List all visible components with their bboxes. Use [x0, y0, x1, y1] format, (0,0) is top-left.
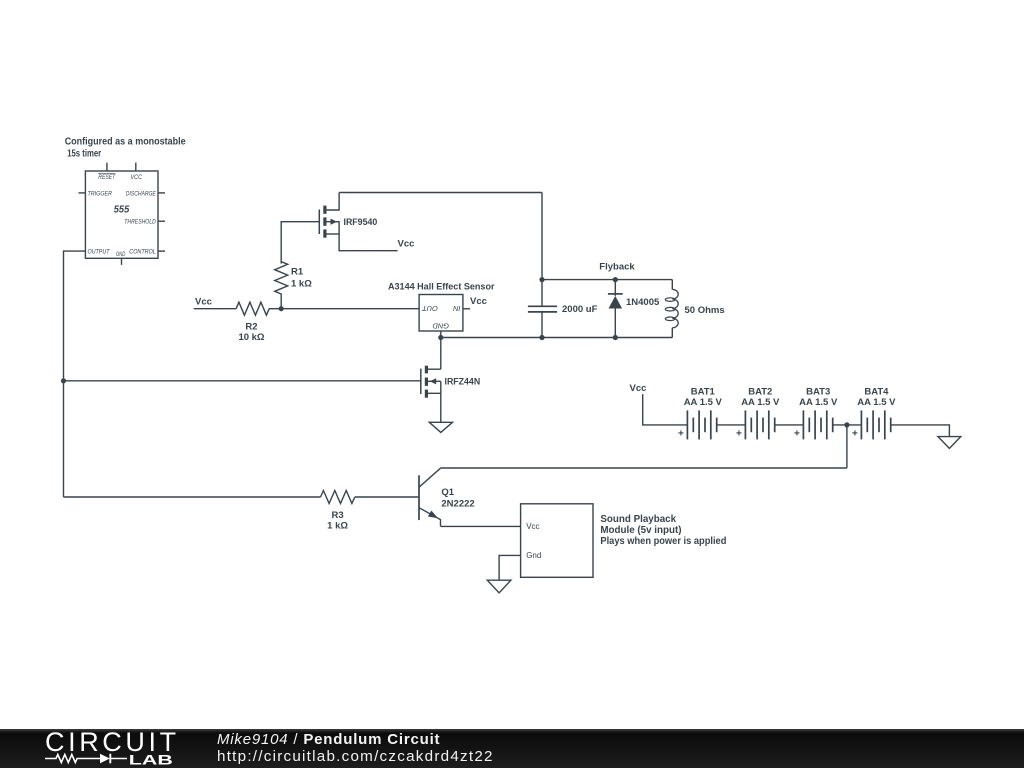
resistor R1 [275, 262, 288, 309]
wire right vertical rail upper [541, 193, 543, 307]
svg-text:OUTPUT: OUTPUT [88, 249, 111, 256]
pin GND stub [121, 258, 123, 265]
transistor Q3 IRFZ44N nmos [421, 366, 441, 423]
footer url [217, 748, 494, 765]
ground symbol below IRFZ44N [429, 422, 452, 432]
svg-text:GND: GND [432, 321, 449, 330]
ground symbol below sound module [487, 580, 511, 593]
svg-text:+: + [852, 429, 858, 440]
svg-text:Q1: Q1 [441, 487, 454, 498]
wire R2 to hall sensor OUT [269, 308, 419, 310]
circuitlab logo [40, 729, 180, 768]
svg-text:Sound Playback: Sound Playback [600, 514, 676, 525]
svg-text:R3: R3 [332, 510, 344, 521]
svg-text:Vcc: Vcc [630, 383, 647, 394]
node junction diode top [613, 277, 618, 282]
svg-text:Flyback: Flyback [599, 261, 635, 272]
svg-text:IRFZ44N: IRFZ44N [445, 377, 481, 387]
svg-text:Gnd: Gnd [526, 551, 541, 560]
svg-text:VCC: VCC [131, 174, 143, 181]
pin RESET stub [106, 163, 108, 171]
node junction hall gnd [438, 335, 443, 340]
pin VCC stub [135, 163, 137, 171]
svg-text:2000 uF: 2000 uF [562, 304, 598, 315]
node junction cap bottom [539, 335, 544, 340]
resistor R2 [236, 302, 269, 315]
svg-text:1N4005: 1N4005 [626, 297, 660, 308]
svg-text:TRIGGER: TRIGGER [88, 190, 113, 197]
wire Q1 emitter to sound module Vcc [441, 525, 521, 527]
hall sensor U2 A3144 box [419, 295, 463, 332]
svg-text:GND: GND [116, 251, 126, 258]
resistor R3 [321, 491, 355, 504]
svg-text:RESET: RESET [98, 174, 116, 181]
wire sound module Gnd [499, 555, 520, 580]
wire battery Vcc stub [643, 394, 688, 425]
battery BAT3 [803, 410, 861, 439]
svg-text:1 kΩ: 1 kΩ [327, 521, 348, 532]
svg-text:1 kΩ: 1 kΩ [291, 278, 312, 289]
wire gate rail to IRFZ44N [64, 380, 421, 382]
svg-text:Vcc: Vcc [470, 296, 487, 307]
svg-text:CONTROL: CONTROL [129, 249, 156, 256]
svg-text:Vcc: Vcc [195, 296, 212, 307]
svg-text:Plays when power is applied: Plays when power is applied [600, 536, 726, 547]
svg-text:Module (5v input): Module (5v input) [600, 525, 681, 536]
svg-text:R2: R2 [245, 322, 257, 333]
wire 555 OUTPUT to left rail down [64, 251, 86, 497]
node junction battery tap [844, 422, 849, 427]
ground symbol right of BAT4 [938, 437, 961, 449]
wire Vcc to R2 [194, 308, 236, 310]
svg-text:AA 1.5 V: AA 1.5 V [799, 397, 838, 408]
pin THRESHOLD stub [158, 220, 165, 222]
sound module box [521, 504, 593, 578]
svg-text:Vcc: Vcc [398, 238, 415, 249]
wire battery tap down to collector rail [846, 425, 848, 468]
svg-text:Configured as a monostable: Configured as a monostable [65, 137, 187, 148]
pin DISCHARGE stub [158, 192, 165, 194]
svg-text:A3144 Hall Effect Sensor: A3144 Hall Effect Sensor [388, 281, 495, 292]
capacitor C1 2000uF [528, 305, 557, 307]
wire flyback bottom rail [441, 337, 673, 339]
svg-text:BAT2: BAT2 [748, 386, 772, 397]
wire flyback top rail [542, 279, 672, 281]
node junction cap top [539, 277, 544, 282]
svg-text:50 Ohms: 50 Ohms [685, 305, 725, 316]
svg-text:LAB: LAB [129, 751, 173, 767]
wire right vertical rail lower [541, 312, 543, 338]
transistor Q1 2N2222 [419, 468, 441, 526]
svg-text:BAT1: BAT1 [691, 386, 716, 397]
svg-text:AA 1.5 V: AA 1.5 V [684, 397, 723, 408]
battery BAT1 [687, 410, 745, 439]
svg-text:BAT4: BAT4 [864, 386, 889, 397]
svg-text:+: + [794, 429, 800, 440]
svg-text:DISCHARGE: DISCHARGE [126, 190, 157, 197]
node junction diode bottom [613, 335, 618, 340]
svg-text:THRESHOLD: THRESHOLD [124, 219, 156, 226]
footer title [217, 731, 440, 748]
svg-text:AA 1.5 V: AA 1.5 V [857, 397, 896, 408]
svg-text:IRF9540: IRF9540 [344, 217, 378, 227]
wire hall GND down [440, 331, 442, 369]
svg-text:OUT: OUT [422, 304, 438, 313]
battery BAT4 [861, 410, 890, 439]
wire BAT4 to ground [891, 425, 950, 437]
pin IN stub [463, 308, 470, 310]
svg-text:15s timer: 15s timer [67, 149, 101, 160]
svg-text:AA 1.5 V: AA 1.5 V [741, 397, 780, 408]
svg-text:555: 555 [114, 204, 130, 215]
svg-text:Vcc: Vcc [526, 522, 539, 531]
svg-text:BAT3: BAT3 [806, 386, 830, 397]
wire bottom rail to R3 [64, 496, 321, 498]
svg-text:2N2222: 2N2222 [441, 498, 474, 509]
pin CONTROL stub [158, 250, 165, 252]
svg-text:+: + [736, 429, 742, 440]
pin TRIGGER stub [79, 192, 86, 194]
op-amp U1 555 timer box [85, 171, 158, 258]
transistor Q2 IRF9540 pmos [319, 193, 397, 251]
diode D1 1N4005 [608, 280, 623, 338]
svg-text:10 kΩ: 10 kΩ [238, 332, 264, 343]
footer bar [0, 729, 1024, 768]
wire IRF9540 drain top rail [339, 192, 542, 194]
svg-text:+: + [678, 429, 684, 440]
svg-text:R1: R1 [291, 266, 304, 277]
node junction left rail [61, 378, 66, 383]
node junction R1/R2 [279, 306, 284, 311]
wire R1 to IRF9540 gate [281, 222, 319, 264]
wire Q1 collector rail [441, 467, 847, 469]
battery BAT2 [745, 410, 803, 439]
wire R3 to Q1 base [355, 496, 419, 498]
svg-text:IN: IN [452, 304, 460, 313]
inductor L1 50 Ohms [665, 280, 678, 338]
